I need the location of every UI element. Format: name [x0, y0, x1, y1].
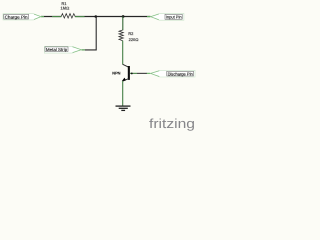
- svg-text:Discharge Pin: Discharge Pin: [168, 71, 194, 76]
- wire: green pin segment right of R1: [75, 16, 85, 18]
- wire: top net from Charge Pin to Input Pin: [41, 16, 61, 18]
- wire: emitter down to ground (green): [122, 81, 124, 106]
- net label Discharge Pin: [151, 70, 195, 77]
- wire: green tip nub at Input Pin: [147, 16, 150, 18]
- svg-text:220Ω: 220Ω: [129, 37, 140, 42]
- wire: green tip nub at Charge Pin: [41, 16, 44, 18]
- junction dot on base wire: [131, 72, 133, 74]
- resistor R1 zigzag: [61, 14, 75, 18]
- wire: junction B down to R2: [122, 17, 124, 31]
- wire: green tip nub at Metal Strip: [82, 49, 85, 51]
- net label Metal Strip: [44, 46, 81, 53]
- net label Input Pin: [151, 14, 184, 21]
- svg-text:Metal Strip: Metal Strip: [46, 47, 68, 52]
- junction node A (metal strip branch): [95, 15, 98, 18]
- wire: vertical drop to Metal Strip: [82, 17, 97, 50]
- junction node B (R2 branch): [122, 15, 125, 18]
- collector diagonal: [123, 64, 129, 67]
- wire: top net right of R1: [75, 16, 150, 18]
- svg-text:R2: R2: [128, 31, 134, 36]
- svg-text:1MΩ: 1MΩ: [61, 5, 71, 10]
- wire: green pin segment left of R1: [52, 16, 61, 18]
- wire: R2 bottom pin to collector (green): [122, 41, 124, 65]
- net label Charge Pin: [3, 14, 41, 20]
- wire: green tip nub at Discharge Pin: [147, 72, 151, 74]
- ground: [116, 106, 131, 110]
- svg-text:NPN: NPN: [112, 71, 120, 76]
- wire: base net middle segment: [137, 72, 147, 74]
- svg-text:Charge Pin: Charge Pin: [5, 14, 29, 19]
- wire: base to Discharge Pin: [130, 72, 137, 74]
- svg-text:Input Pin: Input Pin: [166, 14, 182, 19]
- resistor R2 zigzag (vertical): [119, 30, 123, 41]
- emitter arrow: [122, 78, 126, 82]
- base bar: [128, 66, 130, 80]
- transistor Q1 NPN: [112, 64, 130, 81]
- emitter diagonal: [123, 79, 129, 82]
- svg-text:fritzing: fritzing: [149, 116, 195, 131]
